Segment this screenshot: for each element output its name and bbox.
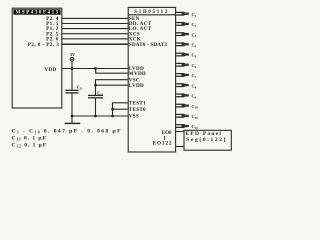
node: VSC/LVDD tie [94, 84, 97, 87]
capacitor C11 plates [66, 89, 79, 91]
svg-text:C7: C7 [192, 73, 197, 79]
capacitor C4 (bypass pair on U2 right edge) [176, 43, 197, 49]
capacitor C5 (bypass pair on U2 right edge) [176, 53, 197, 59]
wire LVDD2 [96, 84, 129, 86]
wire TEST1 tie [113, 103, 129, 116]
node: TEST tie at ground rail [111, 115, 114, 118]
supply 3V stem [71, 61, 73, 68]
capacitor C12 leads [95, 85, 97, 95]
U2 pin labels left [129, 16, 168, 120]
svg-text:TEST1: TEST1 [129, 100, 146, 106]
svg-text:C9: C9 [192, 94, 197, 100]
svg-text:C11 0. 1 μF: C11 0. 1 μF [12, 136, 47, 142]
capacitor C12 (bypass pair on U2 right edge) [176, 124, 199, 130]
svg-text:C1 - C10 0. 047 μF - 0. 068 μF: C1 - C10 0. 047 μF - 0. 068 μF [12, 129, 122, 135]
capacitor C11 leads [71, 69, 73, 91]
svg-text:S1D05112: S1D05112 [134, 10, 169, 15]
MCU U1 MSP430F413 box [12, 8, 62, 108]
wire LO.ACT [62, 28, 128, 30]
svg-text:C10: C10 [192, 114, 199, 120]
wire EO122 [176, 146, 184, 148]
node: C12 at ground rail [94, 115, 97, 118]
capacitor C8 (bypass pair on U2 right edge) [176, 83, 197, 89]
svg-text:EO0: EO0 [162, 131, 172, 136]
wire VSC [96, 80, 129, 86]
svg-text:C8: C8 [192, 83, 197, 89]
svg-text:SDAT0 - SDAT3: SDAT0 - SDAT3 [129, 42, 168, 48]
node: MVDD tap on VDD rail [94, 67, 97, 70]
svg-text:EO122: EO122 [153, 140, 173, 146]
svg-text:P2. 0 - P2. 3: P2. 0 - P2. 3 [28, 42, 59, 48]
wire DD.ACT [62, 23, 128, 25]
svg-text:C6: C6 [192, 63, 197, 69]
node: C11 at ground rail [71, 115, 74, 118]
svg-text:EPD Panel: EPD Panel [186, 131, 223, 137]
svg-text:TEST0: TEST0 [129, 107, 146, 113]
U1 pin labels [28, 16, 59, 73]
wire EO0 [176, 131, 184, 133]
svg-text:C2: C2 [192, 22, 197, 28]
svg-text:Seg[0:122]: Seg[0:122] [186, 137, 227, 143]
ellipsis between EO0 and EO122 [164, 136, 166, 140]
svg-text:C10: C10 [192, 124, 199, 130]
wire XCK [62, 38, 128, 40]
node: TEST0/TEST1 tie [111, 108, 114, 111]
capacitor C9 (bypass pair on U2 right edge) [176, 94, 197, 100]
svg-text:C12 0. 1 μF: C12 0. 1 μF [12, 142, 48, 148]
wire TEST0 [113, 108, 129, 110]
wire MVDD tie [96, 69, 129, 74]
svg-text:VDD: VDD [44, 67, 56, 73]
capacitor C11 (bypass pair on U2 right edge) [176, 114, 199, 120]
wire SEN [62, 17, 128, 19]
U1 title bar [13, 9, 60, 14]
capacitor C6 (bypass pair on U2 right edge) [176, 63, 197, 69]
node: 3V/VDD junction [71, 67, 74, 70]
svg-text:C10: C10 [192, 104, 199, 110]
capacitor C12 plates [88, 94, 103, 96]
ground symbol [71, 116, 73, 123]
svg-text:MSP430F413: MSP430F413 [16, 11, 60, 16]
capacitor C3 (bypass pair on U2 right edge) [176, 32, 197, 38]
capacitor C1 (bypass pair on U2 right edge) [176, 12, 197, 18]
wire VDD to LVDD [62, 68, 128, 70]
U2 title separator [128, 14, 175, 16]
wire XCS [62, 33, 128, 35]
EPD panel box [184, 130, 231, 150]
svg-text:MVDD: MVDD [129, 71, 146, 77]
ground rail [72, 115, 128, 117]
svg-text:3V: 3V [70, 52, 76, 57]
capacitor C7 (bypass pair on U2 right edge) [176, 73, 197, 79]
IC U2 S1D05112 box [128, 7, 175, 152]
svg-text:VSS: VSS [129, 114, 139, 120]
svg-text:C4: C4 [192, 43, 197, 49]
svg-text:LVDD: LVDD [129, 83, 144, 89]
supply 3V terminal [70, 57, 74, 61]
bus SDAT0-SDAT3 [62, 43, 128, 45]
svg-text:C1: C1 [192, 12, 197, 18]
capacitor C10 (bypass pair on U2 right edge) [176, 104, 199, 110]
capacitor C2 (bypass pair on U2 right edge) [176, 22, 197, 28]
svg-text:C3: C3 [192, 32, 197, 38]
junction dots [71, 67, 114, 117]
svg-text:C5: C5 [192, 53, 197, 59]
